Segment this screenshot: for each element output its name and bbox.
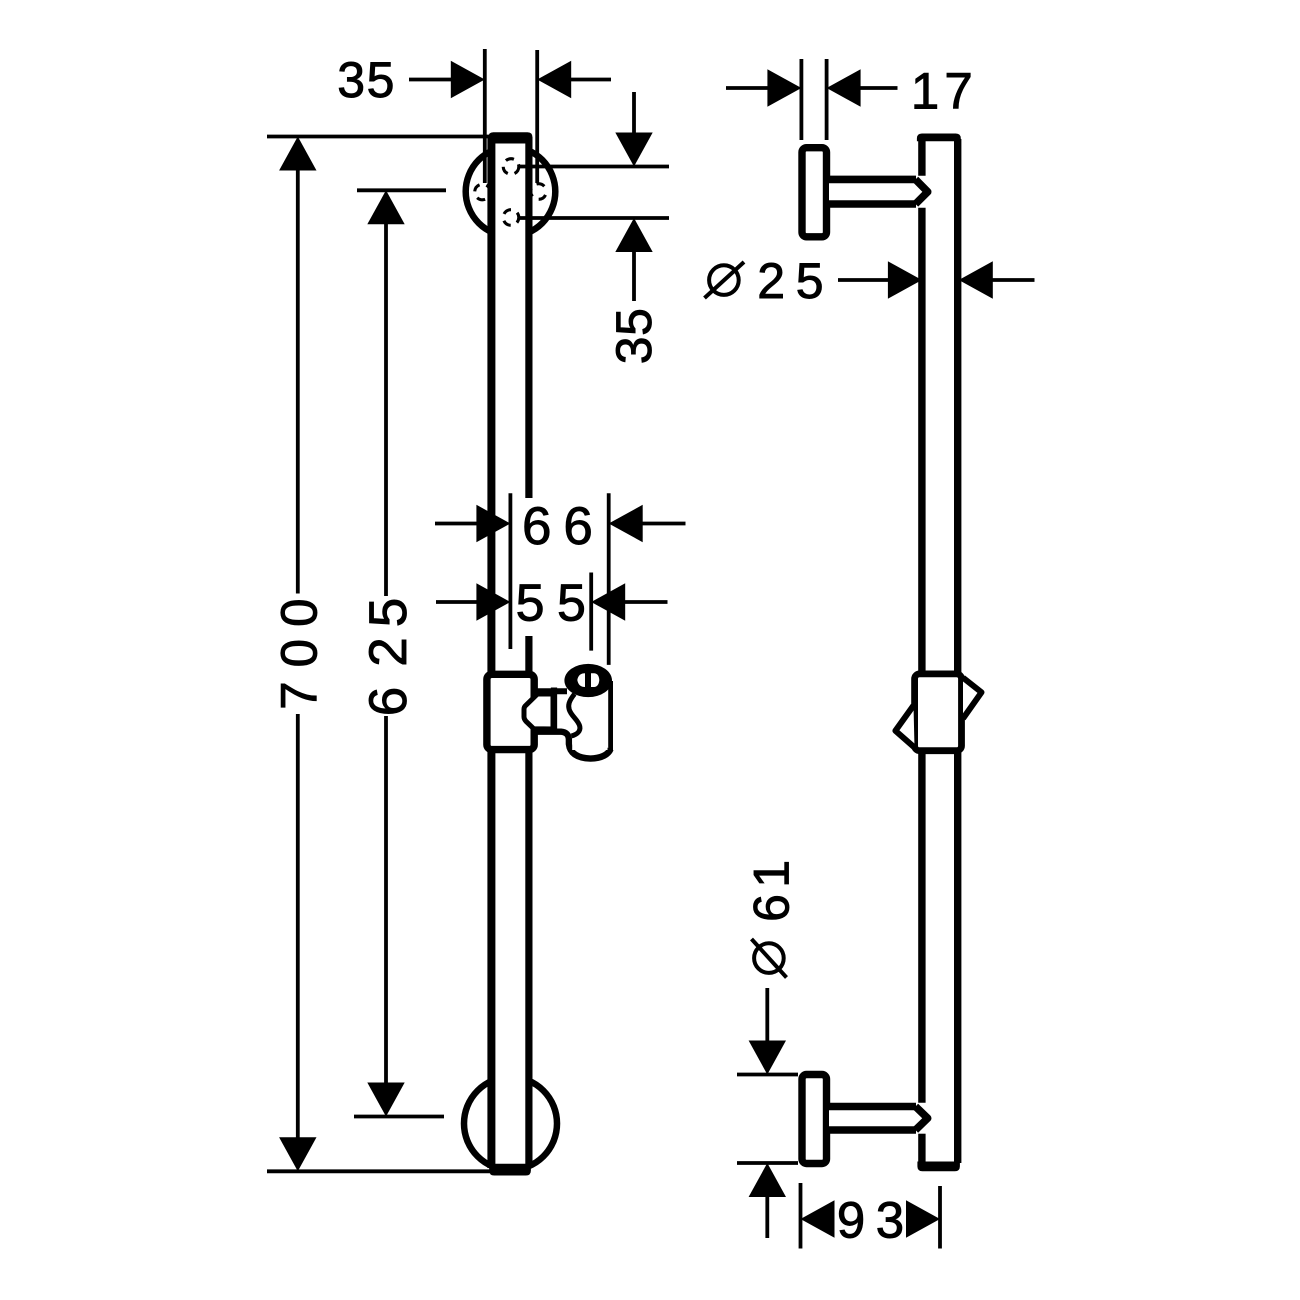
bottom wall plate (side) (802, 1075, 827, 1164)
dim 55: left dim line (436, 600, 481, 604)
top wall-mount circle (466, 147, 556, 237)
svg-text:9: 9 (837, 1192, 865, 1249)
dim 55: right-pointing arrow (476, 583, 510, 620)
dim 17: right extension line (825, 59, 829, 140)
holder neck vertical line (551, 688, 557, 735)
dim 700: vertical line upper (296, 168, 300, 594)
top arm lower line (827, 200, 917, 208)
bar left edge (front) (487, 137, 495, 1168)
dim diameter 61: lower line (765, 1197, 769, 1238)
dim 55: right extension line (589, 573, 593, 651)
dim diameter 61: lower reference line (737, 1161, 798, 1165)
handle top ellipse thin arc detail (600, 673, 602, 688)
svg-text:6: 6 (522, 497, 551, 556)
top arm white fill (829, 183, 917, 201)
svg-text:6: 6 (563, 497, 592, 556)
dim 35 width: left dim line (409, 78, 453, 82)
svg-text:3: 3 (606, 336, 662, 364)
svg-text:0: 0 (271, 599, 328, 627)
dim 66: left extension line (bar centre) (508, 493, 512, 649)
top arm upper line (827, 176, 917, 184)
dim diameter 61: upper reference line (737, 1073, 798, 1077)
dim 625: top extension line (357, 188, 446, 192)
holder neck top line (535, 688, 567, 694)
dim 35 width: left-pointing arrow (537, 61, 571, 98)
svg-text:5: 5 (796, 253, 824, 309)
top arm chevron tip (916, 179, 928, 204)
side bar left edge segment 2 (918, 208, 925, 1103)
dim 625: up arrow (367, 190, 404, 224)
dim 35 width: right dim line (569, 78, 611, 82)
dim diameter 25: right dim line (991, 278, 1035, 282)
dim 35 width: right extension line (535, 50, 539, 183)
screw hole dashed circle top (503, 159, 519, 175)
dim 625: bottom extension line (354, 1115, 444, 1119)
svg-text:5: 5 (516, 575, 545, 633)
screw hole dashed circle right (531, 184, 547, 200)
dim diameter 61: up arrow (749, 1163, 786, 1197)
bottom arm white fill (829, 1110, 917, 1127)
dim 93: left extension line (799, 1183, 803, 1249)
dim diameter 61: down arrow (749, 1041, 786, 1075)
bottom arm lower line (827, 1126, 917, 1134)
dim 625: vertical line lower (384, 716, 388, 1085)
side bar left edge segment 3 (918, 1134, 925, 1163)
dim 625: vertical line upper (384, 222, 388, 596)
dim 35 vertical: upper reference line (520, 165, 670, 169)
handle cylinder body white (front) (572, 684, 607, 750)
dim 66: right dim line (640, 522, 686, 526)
top wall plate (side) (802, 148, 827, 237)
dim diameter 25: left dim line (838, 278, 890, 282)
holder cone (524, 694, 553, 729)
dim 66: right-pointing arrow (476, 505, 510, 542)
svg-text:0: 0 (271, 639, 328, 667)
lever wavy outline inside handle (569, 694, 580, 736)
dim 35 vertical: lower reference line (520, 216, 670, 220)
svg-text:2: 2 (359, 637, 418, 666)
dim 66: left-pointing arrow (609, 505, 643, 542)
dim 700: bottom extension line (267, 1169, 490, 1173)
bar bottom end cap (front) (489, 1164, 531, 1176)
dim 93: left-pointing arrow (inside) (801, 1200, 835, 1237)
bar right edge lower segment (front) (525, 636, 532, 1168)
dim 55: right dim line (624, 600, 668, 604)
svg-text:3: 3 (876, 1192, 904, 1249)
dim 35 vertical: upper line (632, 92, 636, 134)
handle top ellipse black bar in cutout (585, 672, 591, 688)
dim 700: top extension line (267, 135, 527, 139)
dim 700: up arrow (279, 137, 316, 171)
svg-text:6: 6 (359, 687, 418, 716)
bar top end cap (front) (488, 132, 532, 143)
dim 625: down arrow (367, 1083, 404, 1117)
slider holder (side) (915, 674, 962, 751)
dim 17: left extension line (800, 59, 804, 140)
dim diameter 25: left-pointing arrow (959, 261, 993, 298)
handle cylinder right edge (608, 681, 613, 751)
bottom arm chevron tip (916, 1107, 928, 1131)
svg-text:1: 1 (911, 63, 939, 120)
dim 700: vertical line lower (296, 714, 300, 1140)
side bar white body (925, 140, 954, 1164)
dim 66: right extension line (607, 493, 611, 665)
svg-text:1: 1 (744, 860, 800, 888)
dim diameter 25: diameter symbol (709, 265, 739, 295)
dim 700: down arrow (279, 1137, 316, 1171)
dim 93: right-pointing arrow (inside) (906, 1200, 940, 1237)
screw hole dashed circle left (475, 184, 491, 200)
dim 35 vertical: up arrow (615, 218, 652, 252)
side bar right edge (954, 139, 961, 1163)
side bar top end cap (917, 134, 961, 142)
bar body (front) white fill (491, 136, 529, 1169)
svg-text:6: 6 (744, 894, 800, 922)
dim 17: left dim line (726, 86, 769, 90)
dim 17: left-pointing arrow (827, 69, 861, 106)
dim diameter 25: right-pointing arrow (888, 261, 922, 298)
dim 35 vertical: down arrow (615, 133, 652, 167)
bottom arm upper line (827, 1103, 917, 1111)
slider holder body (front) (487, 674, 534, 749)
side bar bottom end cap (917, 1162, 960, 1172)
svg-text:5: 5 (367, 52, 395, 108)
svg-text:7: 7 (944, 63, 972, 120)
svg-text:3: 3 (337, 52, 365, 108)
dim 66: left dim line (435, 522, 481, 526)
svg-text:7: 7 (271, 681, 328, 709)
dim 17: right-pointing arrow (767, 69, 801, 106)
svg-text:5: 5 (557, 575, 586, 633)
dim 35 vertical: lower line (632, 252, 636, 301)
screw hole dashed circle bottom (503, 210, 519, 226)
side bar left edge segment 1 (918, 139, 925, 176)
holder neck bottom line + cylinder left edge + bottom arc (534, 732, 611, 759)
dim 93: right extension line (938, 1186, 942, 1249)
slider right release tab (963, 678, 982, 719)
dim 17: right dim line (859, 86, 898, 90)
dim 55: left-pointing arrow (591, 583, 625, 620)
svg-text:5: 5 (359, 598, 418, 627)
dim 35 width: right-pointing arrow (451, 61, 485, 98)
dim 35 width: left extension line (483, 49, 487, 183)
handle top ellipse (black) (564, 664, 612, 697)
handle top ellipse white eye cutout (577, 673, 599, 687)
bar right edge upper segment (front) (525, 137, 532, 498)
slider left release tab (895, 706, 914, 748)
bottom wall-mount circle (464, 1077, 557, 1170)
dim diameter 61: upper line (765, 988, 769, 1042)
svg-text:5: 5 (606, 308, 662, 336)
svg-text:2: 2 (757, 253, 785, 309)
dim diameter 61: diameter symbol (rotated) (754, 943, 784, 973)
